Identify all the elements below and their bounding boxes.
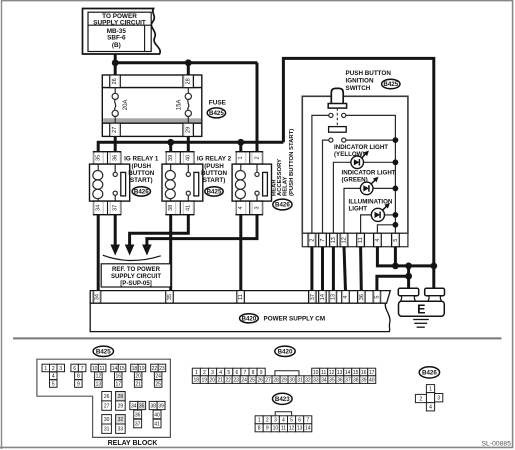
svg-text:36: 36: [337, 378, 343, 384]
svg-text:19: 19: [139, 366, 145, 372]
relay K2: IG RELAY 2 (PUSH BUTTON START): [166, 152, 194, 164]
relay block cavity group 22-25: [151, 364, 159, 372]
svg-text:30: 30: [104, 417, 110, 423]
svg-text:12: 12: [329, 370, 335, 376]
push button actuator: [331, 88, 343, 103]
svg-text:41: 41: [154, 421, 160, 427]
connector ref oval B423 (pinout header): [273, 393, 293, 404]
wire: LED2 to right rail: [373, 187, 395, 189]
svg-text:3: 3: [437, 396, 440, 402]
wire: LED1 to right rail: [364, 161, 396, 163]
svg-text:13: 13: [337, 370, 343, 376]
svg-text:34: 34: [321, 378, 327, 384]
connector ref oval B420 (pinout header): [275, 346, 295, 356]
connector box: TO POWER SUPPLY CIRCUIT MB-35 SBF-6 (B): [83, 9, 161, 55]
svg-text:20: 20: [209, 378, 215, 384]
svg-text:38: 38: [353, 378, 359, 384]
svg-text:25: 25: [155, 381, 161, 387]
relay K1: IG RELAY 1 (PUSH BUTTON START): [94, 152, 121, 164]
svg-text:3: 3: [274, 418, 277, 424]
switch pin 13: [330, 233, 338, 246]
svg-text:1: 1: [238, 156, 244, 159]
svg-text:RELAY: RELAY: [282, 177, 288, 196]
svg-text:12: 12: [96, 374, 102, 380]
svg-text:B425: B425: [96, 348, 111, 355]
svg-text:15A: 15A: [177, 100, 183, 111]
svg-text:IGNITION: IGNITION: [346, 77, 374, 84]
svg-text:16: 16: [361, 370, 367, 376]
svg-text:15: 15: [353, 370, 359, 376]
svg-text:40: 40: [154, 412, 160, 418]
wire: relay1 pin34 to CM pin 34: [97, 215, 100, 291]
wire+arrow: relay2 pin41 output to ref: [130, 215, 189, 246]
wire: pin4 link to right rail: [377, 225, 395, 233]
svg-text:2: 2: [420, 396, 423, 402]
wire: fuse 27 to IG relay1 pin 36: [114, 136, 117, 152]
svg-text:23: 23: [159, 366, 165, 372]
svg-text:14: 14: [305, 426, 311, 432]
connector ref oval B426 (relay K3): [273, 199, 292, 210]
svg-text:35: 35: [95, 155, 101, 161]
power supply CM body: [90, 303, 390, 331]
switch pin 12: [340, 233, 348, 246]
svg-text:B425: B425: [207, 189, 222, 196]
svg-text:1: 1: [429, 387, 432, 393]
svg-text:13: 13: [331, 237, 337, 243]
svg-text:11: 11: [238, 294, 244, 300]
svg-text:IG RELAY 2: IG RELAY 2: [197, 156, 232, 163]
svg-text:11: 11: [100, 366, 105, 372]
svg-text:8: 8: [258, 426, 261, 432]
svg-text:3: 3: [59, 366, 62, 372]
wire: relay3 pin4 to CM pin 11: [239, 215, 242, 291]
svg-text:26: 26: [104, 394, 110, 400]
connector ref oval B425 (switch): [382, 79, 400, 89]
svg-text:B426: B426: [422, 370, 437, 377]
wire: relay2 pin38 to CM pin 35: [169, 215, 172, 291]
svg-text:10: 10: [273, 426, 279, 432]
switch pin row: [302, 233, 408, 246]
svg-text:28: 28: [185, 78, 191, 84]
wire: coil-ground top run y=58.5 to right side: [283, 58, 433, 266]
svg-text:2: 2: [203, 370, 206, 376]
svg-text:24: 24: [155, 374, 161, 380]
svg-text:5: 5: [393, 239, 399, 242]
wire: upper contact to right rail: [346, 115, 396, 233]
svg-text:1: 1: [195, 370, 198, 376]
wire: switch pin2 to CM pin 37: [310, 247, 313, 291]
wire: switch pin13 to CM pin 13: [332, 247, 335, 291]
svg-text:19: 19: [201, 378, 207, 384]
svg-text:35: 35: [329, 378, 335, 384]
CM pin 14: [319, 291, 327, 304]
relay K3: REAR ACCESSORY RELAY (PUSH BUTTON START): [236, 152, 262, 164]
svg-text:3: 3: [211, 370, 214, 376]
svg-text:5: 5: [374, 296, 380, 299]
wire: upper contact to pin 2: [312, 115, 329, 233]
svg-text:22: 22: [152, 366, 158, 372]
relay block cavity group 6-9: [71, 364, 79, 372]
svg-text:29: 29: [281, 378, 287, 384]
svg-text:SBF-6: SBF-6: [107, 34, 126, 41]
svg-text:B426: B426: [134, 189, 149, 196]
svg-text:(PUSH BUTTON START): (PUSH BUTTON START): [289, 129, 295, 196]
wire: LED3 to right rail: [385, 214, 396, 216]
svg-text:21: 21: [217, 378, 223, 384]
svg-text:PUSH BUTTON: PUSH BUTTON: [346, 70, 392, 77]
svg-text:6: 6: [73, 366, 76, 372]
svg-text:26: 26: [112, 78, 118, 84]
switch contact pair lower: [329, 138, 333, 142]
svg-text:17: 17: [369, 370, 375, 376]
wire: ground run to CM pin 5: [407, 266, 410, 289]
svg-text:BUTTON: BUTTON: [128, 170, 155, 177]
svg-text:2: 2: [266, 418, 269, 424]
pin 27 cell: [110, 123, 121, 136]
svg-text:SWITCH: SWITCH: [346, 85, 371, 92]
node junction at fuse 26 feed: [112, 59, 119, 66]
svg-text:18: 18: [132, 366, 138, 372]
svg-text:25: 25: [249, 378, 255, 384]
svg-text:B425: B425: [209, 110, 224, 117]
wire: switch pin12 to CM pin 4: [344, 247, 346, 291]
svg-text:34: 34: [95, 205, 101, 211]
pin 29 cell: [183, 123, 194, 136]
CM pin 37: [309, 291, 317, 304]
svg-text:13: 13: [96, 381, 102, 387]
wire: lower contact to right rail: [346, 139, 396, 141]
node junction above fuse pin 28: [185, 59, 192, 66]
connector B420 pinout: [192, 368, 375, 383]
svg-text:31: 31: [297, 378, 303, 384]
wire+arrow: relay1 pin37 output to ref: [114, 215, 117, 246]
svg-text:28: 28: [118, 394, 124, 400]
switch pin 11: [357, 233, 365, 246]
relay block cavity 28-29: [116, 392, 126, 401]
svg-text:START): START): [130, 177, 153, 184]
svg-text:SL-00885: SL-00885: [482, 440, 512, 447]
svg-text:5: 5: [52, 381, 55, 387]
svg-text:15: 15: [119, 366, 125, 372]
wire: switch pin4 to ground run: [377, 247, 433, 266]
connector ref oval B425 (fuse): [207, 108, 225, 118]
svg-text:7: 7: [320, 239, 326, 242]
node ground junction: [405, 263, 412, 270]
svg-text:2: 2: [52, 366, 55, 372]
svg-text:39: 39: [158, 403, 164, 409]
CM pin 4: [342, 291, 350, 304]
svg-text:24: 24: [241, 378, 247, 384]
svg-text:6: 6: [235, 370, 238, 376]
section separator line: [13, 337, 502, 339]
wire: lower contact to pin 7: [323, 140, 329, 233]
switch pin 4: [374, 233, 382, 246]
svg-text:35: 35: [139, 403, 145, 409]
connector ref oval B426 (relay K1): [132, 187, 150, 196]
CM pin 34: [93, 291, 101, 304]
svg-text:[P-SUP-05]: [P-SUP-05]: [120, 280, 152, 287]
svg-text:32: 32: [118, 417, 124, 423]
switch pin 2: [308, 233, 316, 246]
svg-text:SUPPLY CIRCUIT: SUPPLY CIRCUIT: [93, 19, 146, 26]
connector ref oval B420 (power supply CM): [240, 314, 259, 323]
svg-text:18: 18: [194, 378, 200, 384]
svg-text:33: 33: [118, 427, 124, 433]
svg-text:36: 36: [112, 155, 118, 161]
svg-text:14: 14: [112, 366, 118, 372]
svg-text:31: 31: [104, 427, 110, 433]
svg-text:1: 1: [258, 418, 261, 424]
CM pin 11: [237, 291, 245, 304]
svg-text:IG RELAY 1: IG RELAY 1: [124, 156, 159, 163]
svg-text:5: 5: [290, 418, 293, 424]
svg-text:21: 21: [135, 381, 141, 387]
relay block cavity group 1-5: [42, 364, 50, 372]
relay block cavity group 18-21: [131, 364, 139, 372]
wire: battery feed to rear accessory relay pin 2: [256, 63, 259, 152]
svg-text:RELAY BLOCK: RELAY BLOCK: [108, 440, 158, 447]
wire: supply box down to fuse pin 26: [114, 54, 117, 75]
power supply CM pin row: [90, 291, 390, 304]
svg-text:POWER SUPPLY CM: POWER SUPPLY CM: [264, 316, 326, 323]
CM pin 36: [358, 291, 366, 304]
connector ref oval B425 (relay block header): [93, 346, 113, 356]
wire: right rail down to ground tab: [432, 266, 435, 289]
svg-text:7: 7: [244, 370, 247, 376]
svg-text:9: 9: [266, 426, 269, 432]
switch pin 7: [319, 233, 327, 246]
fuse F2 15A symbol: [185, 88, 191, 124]
CM pin 35: [166, 291, 174, 304]
svg-text:INDICATOR LIGHT: INDICATOR LIGHT: [342, 170, 396, 177]
svg-text:34: 34: [131, 403, 137, 409]
svg-text:6: 6: [298, 418, 301, 424]
wire: down to fuse pin 28: [187, 63, 190, 75]
wire: relay coil feed horizontal y=142: [98, 142, 283, 152]
svg-text:37: 37: [135, 421, 141, 427]
svg-text:11: 11: [281, 426, 286, 432]
svg-text:9: 9: [260, 370, 263, 376]
fuse F1 20A symbol: [112, 88, 118, 124]
svg-text:22: 22: [225, 378, 231, 384]
pin 28 cell: [183, 75, 194, 88]
arc under arrows: [103, 255, 161, 260]
svg-text:4: 4: [238, 206, 244, 209]
wire+arrow: relay3 pin3 output to ref: [147, 215, 257, 246]
connector B423 pinout: [255, 412, 312, 432]
svg-text:27: 27: [104, 404, 110, 410]
svg-text:1: 1: [44, 366, 47, 372]
svg-text:START): START): [203, 177, 226, 184]
svg-text:(PUSH: (PUSH: [132, 163, 152, 170]
svg-text:17: 17: [115, 381, 121, 387]
mechanical link dashed: [336, 108, 338, 127]
connector ref oval B425 (relay K2): [205, 187, 223, 196]
svg-text:B420: B420: [278, 348, 293, 355]
svg-text:INDICATOR LIGHT: INDICATOR LIGHT: [334, 144, 388, 151]
svg-text:LIGHT: LIGHT: [349, 206, 368, 213]
relay block outline: [37, 359, 171, 437]
svg-text:12: 12: [341, 237, 347, 243]
node junction relay3 pin 1: [237, 139, 244, 146]
svg-text:14: 14: [320, 294, 326, 300]
svg-text:16: 16: [115, 374, 121, 380]
CM pin 13: [329, 291, 337, 304]
connector ref oval B426 (pinout header): [419, 367, 439, 378]
pin 26 cell: [110, 75, 121, 88]
svg-text:40: 40: [186, 155, 192, 161]
svg-text:4: 4: [52, 374, 55, 380]
svg-text:38: 38: [150, 403, 156, 409]
wire: fuse 29 to IG relay2 pin 40: [187, 136, 190, 152]
svg-text:11: 11: [358, 237, 364, 243]
svg-text:37: 37: [310, 294, 316, 300]
svg-text:5: 5: [227, 370, 230, 376]
svg-text:32: 32: [305, 378, 311, 384]
svg-text:29: 29: [118, 404, 124, 410]
relay block cavity 30-31: [102, 415, 112, 424]
svg-text:29: 29: [185, 127, 191, 133]
svg-text:13: 13: [297, 426, 303, 432]
svg-text:12: 12: [289, 426, 295, 432]
svg-text:10: 10: [313, 370, 319, 376]
wire: pin11 to LED3: [361, 215, 372, 233]
svg-text:20A: 20A: [123, 100, 129, 111]
wire: switch pin11 to CM pin 36: [359, 247, 363, 291]
svg-text:4: 4: [282, 418, 285, 424]
CM pin 5: [373, 291, 381, 304]
svg-text:40: 40: [369, 378, 375, 384]
switch S1 box: push button ignition switch: [302, 96, 408, 233]
svg-text:34: 34: [94, 294, 100, 300]
wire: switch pin7 to CM pin 14: [321, 247, 324, 291]
switch contact pair upper: [329, 113, 333, 117]
node junction relay2 pin 39: [167, 139, 174, 146]
svg-text:39: 39: [361, 378, 367, 384]
svg-text:23: 23: [233, 378, 239, 384]
svg-text:28: 28: [273, 378, 279, 384]
svg-text:(B): (B): [112, 42, 121, 49]
svg-text:B420: B420: [242, 315, 257, 322]
svg-text:BUTTON: BUTTON: [201, 170, 228, 177]
svg-text:20: 20: [135, 374, 141, 380]
svg-text:41: 41: [186, 205, 192, 211]
svg-text:4: 4: [375, 239, 381, 242]
svg-text:4: 4: [343, 296, 349, 299]
switch pin 5: [392, 233, 400, 246]
wire: pin12 to LED2: [344, 188, 360, 233]
relay block cavity 38-41: [149, 401, 157, 409]
svg-text:11: 11: [321, 370, 326, 376]
svg-text:35: 35: [167, 294, 173, 300]
svg-text:FUSE: FUSE: [209, 99, 227, 106]
svg-text:37: 37: [345, 378, 351, 384]
svg-text:33: 33: [313, 378, 319, 384]
wire: switch pin5 to ground run: [394, 247, 397, 266]
svg-text:3: 3: [254, 206, 260, 209]
svg-text:2: 2: [254, 156, 260, 159]
svg-text:27: 27: [265, 378, 271, 384]
svg-text:7: 7: [81, 366, 84, 372]
relay block cavity group 14-17: [111, 364, 119, 372]
svg-text:E: E: [417, 303, 425, 317]
box: REF. TO POWER SUPPLY CIRCUIT [P-SUP-05]: [101, 264, 171, 287]
svg-text:39: 39: [168, 155, 174, 161]
svg-text:27: 27: [112, 127, 118, 133]
svg-text:36: 36: [135, 412, 141, 418]
svg-text:8: 8: [77, 374, 80, 380]
svg-text:4: 4: [219, 370, 222, 376]
svg-text:(PUSH: (PUSH: [204, 163, 224, 170]
ground chassis E: [398, 288, 444, 327]
svg-text:7: 7: [306, 418, 309, 424]
svg-text:10: 10: [92, 366, 98, 372]
svg-text:B426: B426: [275, 202, 290, 209]
svg-text:26: 26: [257, 378, 263, 384]
wire: horizontal battery feed bus y=63: [115, 61, 257, 64]
svg-text:4: 4: [429, 405, 432, 411]
relay block cavity 26-27: [102, 392, 112, 401]
svg-text:8: 8: [252, 370, 255, 376]
svg-text:36: 36: [359, 294, 365, 300]
relay block cavity 34-37: [130, 401, 138, 409]
svg-text:30: 30: [289, 378, 295, 384]
svg-text:B423: B423: [275, 396, 290, 403]
relay block cavity 32-33: [116, 415, 126, 424]
fuse holder B425 outline: [102, 75, 202, 136]
connector B426 pinout cross: [415, 385, 442, 411]
wire: pin13 to LED1: [333, 162, 350, 233]
svg-text:14: 14: [345, 370, 351, 376]
svg-text:B425: B425: [383, 81, 398, 88]
svg-text:37: 37: [112, 205, 118, 211]
svg-text:38: 38: [168, 205, 174, 211]
relay block cavity group 10-13: [91, 364, 99, 372]
svg-text:13: 13: [330, 294, 336, 300]
svg-text:2: 2: [309, 239, 315, 242]
svg-text:9: 9: [77, 381, 80, 387]
